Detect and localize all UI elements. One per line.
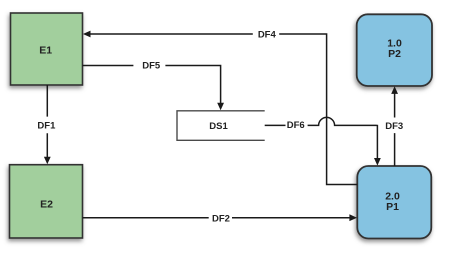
svg-text:DF4: DF4 <box>258 29 277 40</box>
svg-text:DF6: DF6 <box>287 120 305 131</box>
svg-text:DS1: DS1 <box>209 121 228 132</box>
svg-text:DF2: DF2 <box>212 213 230 224</box>
svg-text:E2: E2 <box>40 198 53 210</box>
svg-text:E1: E1 <box>39 44 52 56</box>
svg-text:DF3: DF3 <box>385 121 403 132</box>
svg-text:DF1: DF1 <box>37 120 56 131</box>
svg-text:P1: P1 <box>386 201 399 213</box>
svg-text:DF5: DF5 <box>142 61 161 72</box>
svg-text:P2: P2 <box>388 48 401 60</box>
